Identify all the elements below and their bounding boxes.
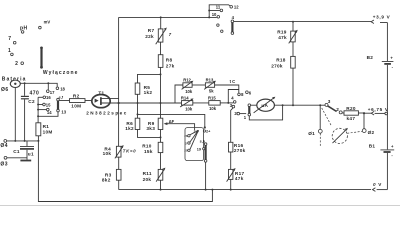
wire to rail node bbox=[375, 112, 385, 114]
dashed knob bbox=[332, 128, 348, 144]
S2 contact a bbox=[188, 135, 190, 137]
svg-text:R13: R13 bbox=[206, 78, 214, 83]
wire backbone drain rail bbox=[118, 17, 120, 146]
svg-text:u1: u1 bbox=[28, 151, 34, 156]
junction bbox=[227, 102, 229, 104]
label 19 bbox=[197, 147, 205, 151]
wire wiper to R2 bbox=[59, 100, 69, 102]
svg-text:R2: R2 bbox=[73, 93, 80, 98]
contact 15 bbox=[43, 102, 51, 107]
wire to O1 bbox=[319, 105, 321, 129]
wire to contact 11 bbox=[209, 10, 220, 12]
svg-text:2: 2 bbox=[336, 107, 339, 112]
svg-text:R8: R8 bbox=[166, 58, 173, 63]
resistor R8 bbox=[158, 55, 174, 69]
wire stub to right rail bbox=[380, 22, 387, 24]
resistor R9 bbox=[146, 118, 162, 131]
wire R15 to contact 4 bbox=[220, 102, 233, 104]
terminal arrow +3.9V bbox=[371, 20, 374, 24]
resistor R1 bbox=[36, 97, 53, 141]
svg-text:470: 470 bbox=[30, 91, 40, 97]
resistor R20 bbox=[342, 106, 364, 121]
resistor R18 bbox=[271, 56, 295, 68]
wire T1 source row bbox=[101, 102, 182, 104]
svg-text:R20: R20 bbox=[346, 106, 356, 111]
resistor R7 trimmer bbox=[145, 17, 172, 44]
contact 2 bbox=[21, 62, 24, 65]
wire stub 0V to rail bbox=[377, 189, 388, 191]
wire R8 down through nodes bbox=[160, 67, 162, 118]
contact 18 bbox=[56, 87, 65, 92]
junction bbox=[205, 189, 207, 191]
wire C2 down bbox=[24, 99, 26, 140]
svg-text:R12: R12 bbox=[183, 78, 191, 83]
resistor R13 trimmer bbox=[204, 78, 216, 94]
svg-text:14: 14 bbox=[47, 110, 52, 115]
wire to contact 14 bbox=[38, 109, 46, 111]
wire connector to contacts row bbox=[20, 83, 57, 87]
wire to contact 15 bbox=[38, 104, 42, 106]
svg-text:10: 10 bbox=[212, 12, 217, 17]
svg-text:R1: R1 bbox=[43, 124, 50, 129]
contact 6 bbox=[246, 90, 252, 95]
wire R10 to R11 bbox=[160, 153, 162, 170]
contact 10 bbox=[212, 12, 220, 18]
battery B2 bbox=[367, 55, 394, 70]
contact 3 right bbox=[325, 99, 331, 107]
svg-text:10k: 10k bbox=[185, 89, 193, 94]
svg-text:13: 13 bbox=[61, 110, 66, 115]
resistor R11 trimmer bbox=[143, 168, 166, 183]
wire top drain rail bbox=[119, 16, 217, 18]
svg-text:26: 26 bbox=[184, 134, 188, 138]
svg-text:18: 18 bbox=[60, 87, 65, 92]
junction bbox=[24, 82, 26, 84]
wire 0V rail bbox=[119, 189, 371, 191]
svg-text:15k: 15k bbox=[144, 149, 153, 154]
resistor R2 bbox=[70, 93, 86, 108]
svg-text:22k: 22k bbox=[145, 34, 154, 39]
svg-text:12: 12 bbox=[234, 5, 239, 10]
junction bbox=[137, 113, 139, 115]
wire node row bbox=[7, 140, 39, 142]
meter polarity wiper bar bbox=[248, 104, 251, 116]
S2 contact b bbox=[188, 142, 190, 144]
capacitor C1 u1 bbox=[13, 141, 34, 160]
svg-text:10M: 10M bbox=[71, 103, 81, 108]
terminal O3 bbox=[0, 156, 8, 167]
junction R19 bbox=[292, 21, 294, 23]
wire lower return rail bbox=[38, 141, 212, 202]
svg-text:47k: 47k bbox=[235, 176, 244, 181]
svg-text:10k: 10k bbox=[209, 106, 217, 111]
junction bbox=[160, 189, 162, 191]
junction bbox=[24, 140, 26, 142]
junction bbox=[208, 16, 210, 18]
wire R11 to 0V rail bbox=[160, 180, 162, 189]
junction top rail R7 bbox=[160, 16, 162, 18]
junction bbox=[47, 82, 49, 84]
battery B1 bbox=[369, 144, 395, 158]
svg-text:Ø6: Ø6 bbox=[1, 87, 9, 93]
svg-text:t C: t C bbox=[230, 79, 236, 84]
wire tap to contact 8 line bbox=[228, 90, 239, 103]
contact 17 bbox=[47, 90, 56, 95]
wire right rail middle bbox=[386, 65, 388, 150]
wire bracket to R12 row bbox=[175, 85, 183, 103]
wire R7 to R8 bbox=[160, 42, 162, 55]
svg-text:20: 20 bbox=[184, 149, 188, 153]
junction bbox=[160, 136, 162, 138]
wire meter right bbox=[274, 104, 320, 106]
junction bbox=[208, 10, 210, 12]
S2 contact c bbox=[188, 149, 190, 151]
junction bbox=[37, 109, 39, 111]
svg-text:11: 11 bbox=[216, 5, 221, 10]
contact unused b bbox=[221, 30, 223, 32]
svg-text:R10: R10 bbox=[142, 144, 152, 149]
svg-text:3k3: 3k3 bbox=[146, 126, 155, 131]
svg-text:19: 19 bbox=[197, 147, 201, 151]
terminal O1 bbox=[308, 129, 322, 135]
terminal arrow +6,75V bbox=[371, 111, 374, 115]
resistor R19 trimmer bbox=[277, 30, 298, 44]
wire right rail lower bbox=[386, 153, 388, 190]
wire R13 to contact 8 bbox=[215, 85, 239, 93]
junction bbox=[282, 104, 284, 106]
resistor R15 bbox=[208, 95, 220, 111]
resistor R3 bbox=[102, 169, 121, 182]
transistor T1 2N3822 bbox=[86, 90, 128, 115]
junction bbox=[37, 115, 39, 117]
coax connector J1 bbox=[10, 80, 20, 87]
contact 11 bbox=[216, 5, 223, 12]
S2 wiper lines bbox=[190, 130, 199, 149]
contact small bbox=[203, 130, 205, 132]
wire to contact 16 bbox=[38, 96, 43, 98]
wire contact 3 to R16 bbox=[231, 108, 233, 143]
svg-text:7: 7 bbox=[8, 36, 11, 42]
contact 8 bbox=[238, 92, 244, 97]
resistor R14 trimmer bbox=[180, 96, 193, 112]
svg-text:Ø1: Ø1 bbox=[308, 131, 315, 136]
wire bar to meter bbox=[251, 104, 257, 106]
junction bbox=[118, 102, 120, 104]
svg-text:R11: R11 bbox=[143, 171, 152, 176]
svg-text:2: 2 bbox=[15, 61, 18, 67]
meter uA bbox=[254, 97, 276, 113]
contact unused a bbox=[217, 24, 219, 26]
wire R5 top to R7/R8 node bbox=[138, 74, 161, 83]
junction bbox=[204, 126, 206, 128]
contact pH bbox=[21, 31, 24, 34]
switch S1a wiper bar bbox=[57, 98, 60, 112]
svg-text:10M: 10M bbox=[43, 130, 53, 135]
wire R12 to R13 bbox=[192, 84, 205, 86]
resistor R17 trimmer bbox=[227, 168, 245, 182]
wire to C2 bbox=[24, 83, 26, 96]
resistor R4 trimmer bbox=[103, 145, 137, 158]
ground bar bbox=[20, 160, 31, 162]
wire R6 to R9/R10 node bbox=[138, 130, 161, 138]
svg-text:R14: R14 bbox=[181, 96, 189, 101]
svg-text:uA: uA bbox=[261, 103, 268, 108]
contact 16 bbox=[43, 95, 51, 100]
wire to O2 bbox=[363, 113, 365, 129]
wire R2 to gate bbox=[85, 100, 92, 102]
svg-text:20k: 20k bbox=[143, 177, 152, 182]
junction bbox=[319, 104, 321, 106]
svg-text:Ø2: Ø2 bbox=[368, 130, 375, 135]
wire to contact 17 bbox=[47, 83, 49, 90]
svg-text:R15: R15 bbox=[208, 95, 216, 100]
switch S2 range box bbox=[185, 128, 204, 161]
wire to contact 3 bbox=[320, 104, 325, 106]
svg-text:pH: pH bbox=[20, 26, 28, 32]
junction bbox=[211, 189, 213, 191]
junction bbox=[14, 140, 16, 142]
wire connector shield down bbox=[14, 88, 16, 141]
wire contact 2 bbox=[240, 113, 247, 115]
wire R19 to R18 bbox=[292, 42, 294, 57]
svg-text:+6,75 V: +6,75 V bbox=[368, 107, 389, 112]
svg-text:1k2: 1k2 bbox=[125, 126, 134, 131]
junction bbox=[160, 73, 162, 75]
deltaF arrow and wire bbox=[164, 119, 195, 130]
wire source to R6 bbox=[137, 103, 139, 118]
svg-text:23b: 23b bbox=[194, 129, 199, 133]
dashed mechanical link upper bbox=[322, 108, 332, 126]
contact 3 bbox=[230, 103, 235, 108]
svg-text:2N3822spec: 2N3822spec bbox=[86, 110, 128, 115]
wire R9 to R10 bbox=[160, 130, 162, 143]
bottom border bbox=[0, 204, 400, 206]
svg-text:0 V: 0 V bbox=[373, 182, 382, 187]
svg-text:R18: R18 bbox=[276, 58, 286, 63]
svg-text:mV: mV bbox=[44, 19, 51, 24]
resistor R6 bbox=[125, 118, 140, 131]
meter bypass loop bbox=[249, 105, 282, 120]
svg-text:B1: B1 bbox=[369, 144, 376, 149]
svg-text:10k: 10k bbox=[185, 107, 193, 112]
svg-text:16: 16 bbox=[46, 95, 51, 100]
svg-text:R7: R7 bbox=[148, 28, 155, 33]
contact mV bbox=[39, 26, 42, 29]
resistor R12 trimmer bbox=[182, 78, 194, 94]
switch blade bbox=[328, 106, 337, 112]
junction bbox=[292, 104, 294, 106]
svg-text:Ø4: Ø4 bbox=[0, 143, 8, 149]
wire R16 to R17 bbox=[230, 152, 232, 169]
svg-text:47k: 47k bbox=[278, 35, 287, 40]
svg-text:8k2: 8k2 bbox=[102, 177, 111, 182]
wire S2 bar to 0V rail bbox=[205, 162, 207, 189]
terminal O4 bbox=[0, 140, 8, 149]
terminal O2 bbox=[362, 129, 374, 135]
switch S2 wiper bar bbox=[204, 143, 207, 162]
rail node circle bbox=[385, 112, 388, 115]
resistor R16 bbox=[229, 142, 246, 153]
resistor R5 bbox=[135, 83, 152, 103]
svg-text:T1: T1 bbox=[98, 90, 104, 95]
contact 2 right bbox=[339, 111, 342, 114]
wire R18 to meter wire bbox=[292, 68, 294, 105]
contact 12 bbox=[230, 5, 239, 10]
wire right rail upper bbox=[386, 23, 388, 62]
svg-text:k47: k47 bbox=[347, 116, 356, 121]
contact 1 bbox=[11, 53, 14, 56]
wire R14 to R15 bbox=[193, 102, 209, 104]
wire deltaF net bbox=[138, 114, 205, 127]
junction bbox=[37, 104, 39, 106]
svg-text:R19: R19 bbox=[277, 30, 287, 35]
wire R3 to 0V rail bbox=[118, 180, 120, 189]
svg-text:TK=0: TK=0 bbox=[123, 149, 137, 154]
svg-text:10k: 10k bbox=[103, 151, 112, 156]
svg-text:270k: 270k bbox=[234, 148, 246, 153]
junction bbox=[363, 112, 365, 114]
junction bbox=[137, 102, 139, 104]
junction bbox=[160, 102, 162, 104]
svg-text:3: 3 bbox=[328, 99, 331, 104]
svg-text:1k2: 1k2 bbox=[144, 90, 153, 95]
wire terminal O3 bbox=[7, 157, 27, 159]
contact 2 bbox=[234, 111, 239, 116]
svg-text:15: 15 bbox=[46, 102, 51, 107]
wire contact 13 to gate net bbox=[38, 112, 58, 116]
terminal arrow 0V bbox=[373, 188, 376, 192]
svg-text:+3,9 V: +3,9 V bbox=[373, 15, 391, 20]
contact 14 bbox=[47, 108, 53, 115]
junction bbox=[37, 140, 39, 142]
contact 4 bbox=[231, 96, 236, 104]
contact 7 bbox=[13, 41, 16, 44]
S2 tiny contact labels bbox=[184, 134, 188, 152]
svg-text:27k: 27k bbox=[166, 64, 175, 69]
svg-text:5k: 5k bbox=[209, 88, 214, 93]
wire R17 to 0V rail bbox=[230, 179, 232, 189]
wire top branch bbox=[209, 5, 230, 18]
wire +3.9V rail bbox=[234, 21, 371, 23]
dashed link O1 bbox=[319, 133, 321, 146]
svg-text:Ø3: Ø3 bbox=[0, 161, 8, 167]
svg-text:270k: 270k bbox=[271, 63, 283, 68]
svg-text:C2: C2 bbox=[28, 99, 35, 104]
wire R4 to R3 bbox=[118, 157, 120, 169]
resistor R10 bbox=[142, 142, 163, 154]
junction bbox=[230, 189, 232, 191]
dashed link O2 bbox=[347, 131, 362, 133]
svg-text:C1: C1 bbox=[13, 149, 20, 154]
svg-text:ΔF: ΔF bbox=[169, 119, 175, 124]
switch wiper bar (off position) bbox=[40, 47, 43, 69]
svg-text:B2: B2 bbox=[367, 55, 374, 60]
wire rail to R19 bbox=[292, 22, 294, 31]
svg-text:Wyłączone: Wyłączone bbox=[43, 70, 79, 76]
wire T1 drain bbox=[101, 97, 119, 99]
capacitor C2 470 bbox=[21, 91, 39, 105]
wire to +6.75V terminal bbox=[364, 112, 371, 114]
svg-text:e,f: e,f bbox=[59, 96, 64, 100]
switch S1c wiper bar bbox=[231, 20, 234, 34]
